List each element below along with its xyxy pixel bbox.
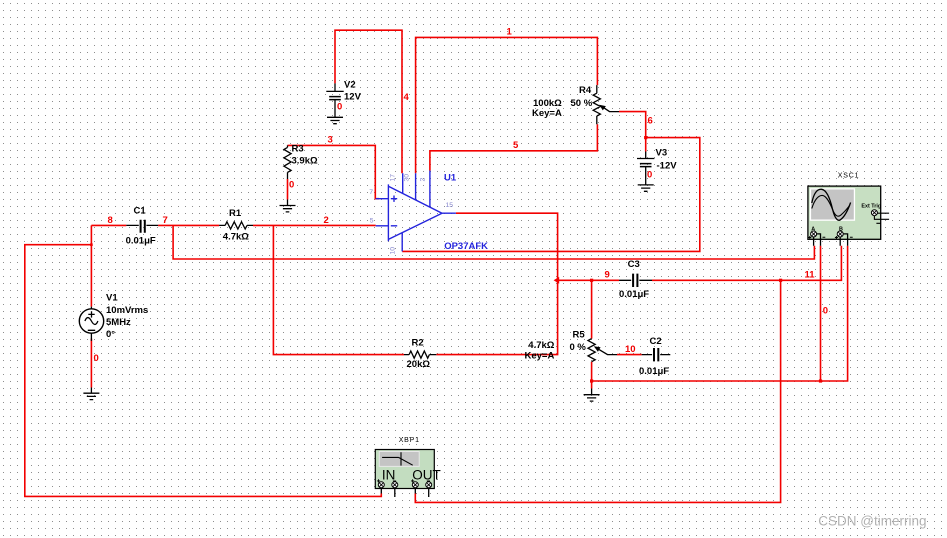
svg-text:0 %: 0 % bbox=[570, 342, 587, 353]
svg-text:10: 10 bbox=[389, 247, 396, 255]
svg-text:V3: V3 bbox=[656, 148, 668, 159]
svg-text:XBP1: XBP1 bbox=[399, 437, 420, 444]
svg-text:0: 0 bbox=[337, 102, 342, 113]
svg-text:7: 7 bbox=[369, 189, 373, 196]
svg-text:2: 2 bbox=[419, 178, 426, 182]
svg-text:5: 5 bbox=[370, 218, 374, 225]
svg-text:15: 15 bbox=[446, 202, 454, 209]
svg-text:10mVrms: 10mVrms bbox=[106, 305, 148, 316]
svg-text:9: 9 bbox=[605, 269, 610, 280]
svg-text:Ext Trig: Ext Trig bbox=[861, 204, 881, 210]
svg-text:CSDN @timerring: CSDN @timerring bbox=[818, 514, 926, 529]
svg-text:C3: C3 bbox=[628, 259, 640, 270]
svg-text:Key=A: Key=A bbox=[525, 350, 555, 361]
svg-text:5: 5 bbox=[513, 140, 519, 151]
svg-text:0.01μF: 0.01μF bbox=[619, 289, 649, 300]
svg-text:30: 30 bbox=[403, 174, 410, 182]
svg-text:4.7kΩ: 4.7kΩ bbox=[223, 232, 249, 243]
svg-text:XSC1: XSC1 bbox=[838, 173, 860, 180]
svg-text:R3: R3 bbox=[292, 144, 304, 155]
svg-text:11: 11 bbox=[805, 270, 816, 281]
svg-text:C2: C2 bbox=[650, 336, 662, 347]
svg-text:0°: 0° bbox=[106, 329, 115, 340]
svg-text:0.01μF: 0.01μF bbox=[126, 235, 156, 246]
svg-text:R2: R2 bbox=[412, 338, 424, 349]
svg-text:-12V: -12V bbox=[657, 161, 678, 172]
svg-text:3.9kΩ: 3.9kΩ bbox=[292, 155, 318, 166]
svg-text:4: 4 bbox=[404, 92, 410, 103]
svg-text:R4: R4 bbox=[579, 85, 592, 96]
svg-text:50 %: 50 % bbox=[571, 98, 593, 109]
svg-text:2: 2 bbox=[324, 215, 329, 226]
svg-text:R1: R1 bbox=[229, 208, 242, 219]
svg-text:7: 7 bbox=[163, 215, 168, 226]
svg-text:OP37AFK: OP37AFK bbox=[444, 241, 488, 252]
svg-text:17: 17 bbox=[390, 174, 397, 182]
svg-text:0: 0 bbox=[647, 170, 652, 181]
svg-text:1: 1 bbox=[507, 27, 513, 38]
svg-text:0: 0 bbox=[94, 353, 99, 364]
svg-text:Key=A: Key=A bbox=[532, 108, 562, 119]
svg-text:V2: V2 bbox=[344, 80, 356, 91]
svg-text:IN: IN bbox=[382, 468, 396, 483]
svg-text:0.01μF: 0.01μF bbox=[639, 366, 669, 377]
svg-text:V1: V1 bbox=[106, 293, 118, 304]
svg-text:R5: R5 bbox=[573, 330, 586, 341]
svg-text:10: 10 bbox=[625, 344, 636, 355]
svg-text:0: 0 bbox=[823, 306, 828, 317]
svg-text:12V: 12V bbox=[344, 92, 362, 103]
svg-text:U1: U1 bbox=[444, 173, 457, 184]
svg-text:6: 6 bbox=[648, 115, 653, 126]
svg-text:OUT: OUT bbox=[412, 468, 441, 483]
svg-text:5MHz: 5MHz bbox=[106, 317, 131, 328]
svg-text:3: 3 bbox=[328, 135, 333, 146]
svg-text:C1: C1 bbox=[134, 206, 147, 217]
svg-text:20kΩ: 20kΩ bbox=[407, 359, 431, 370]
svg-text:0: 0 bbox=[289, 179, 294, 190]
svg-text:8: 8 bbox=[108, 215, 113, 226]
